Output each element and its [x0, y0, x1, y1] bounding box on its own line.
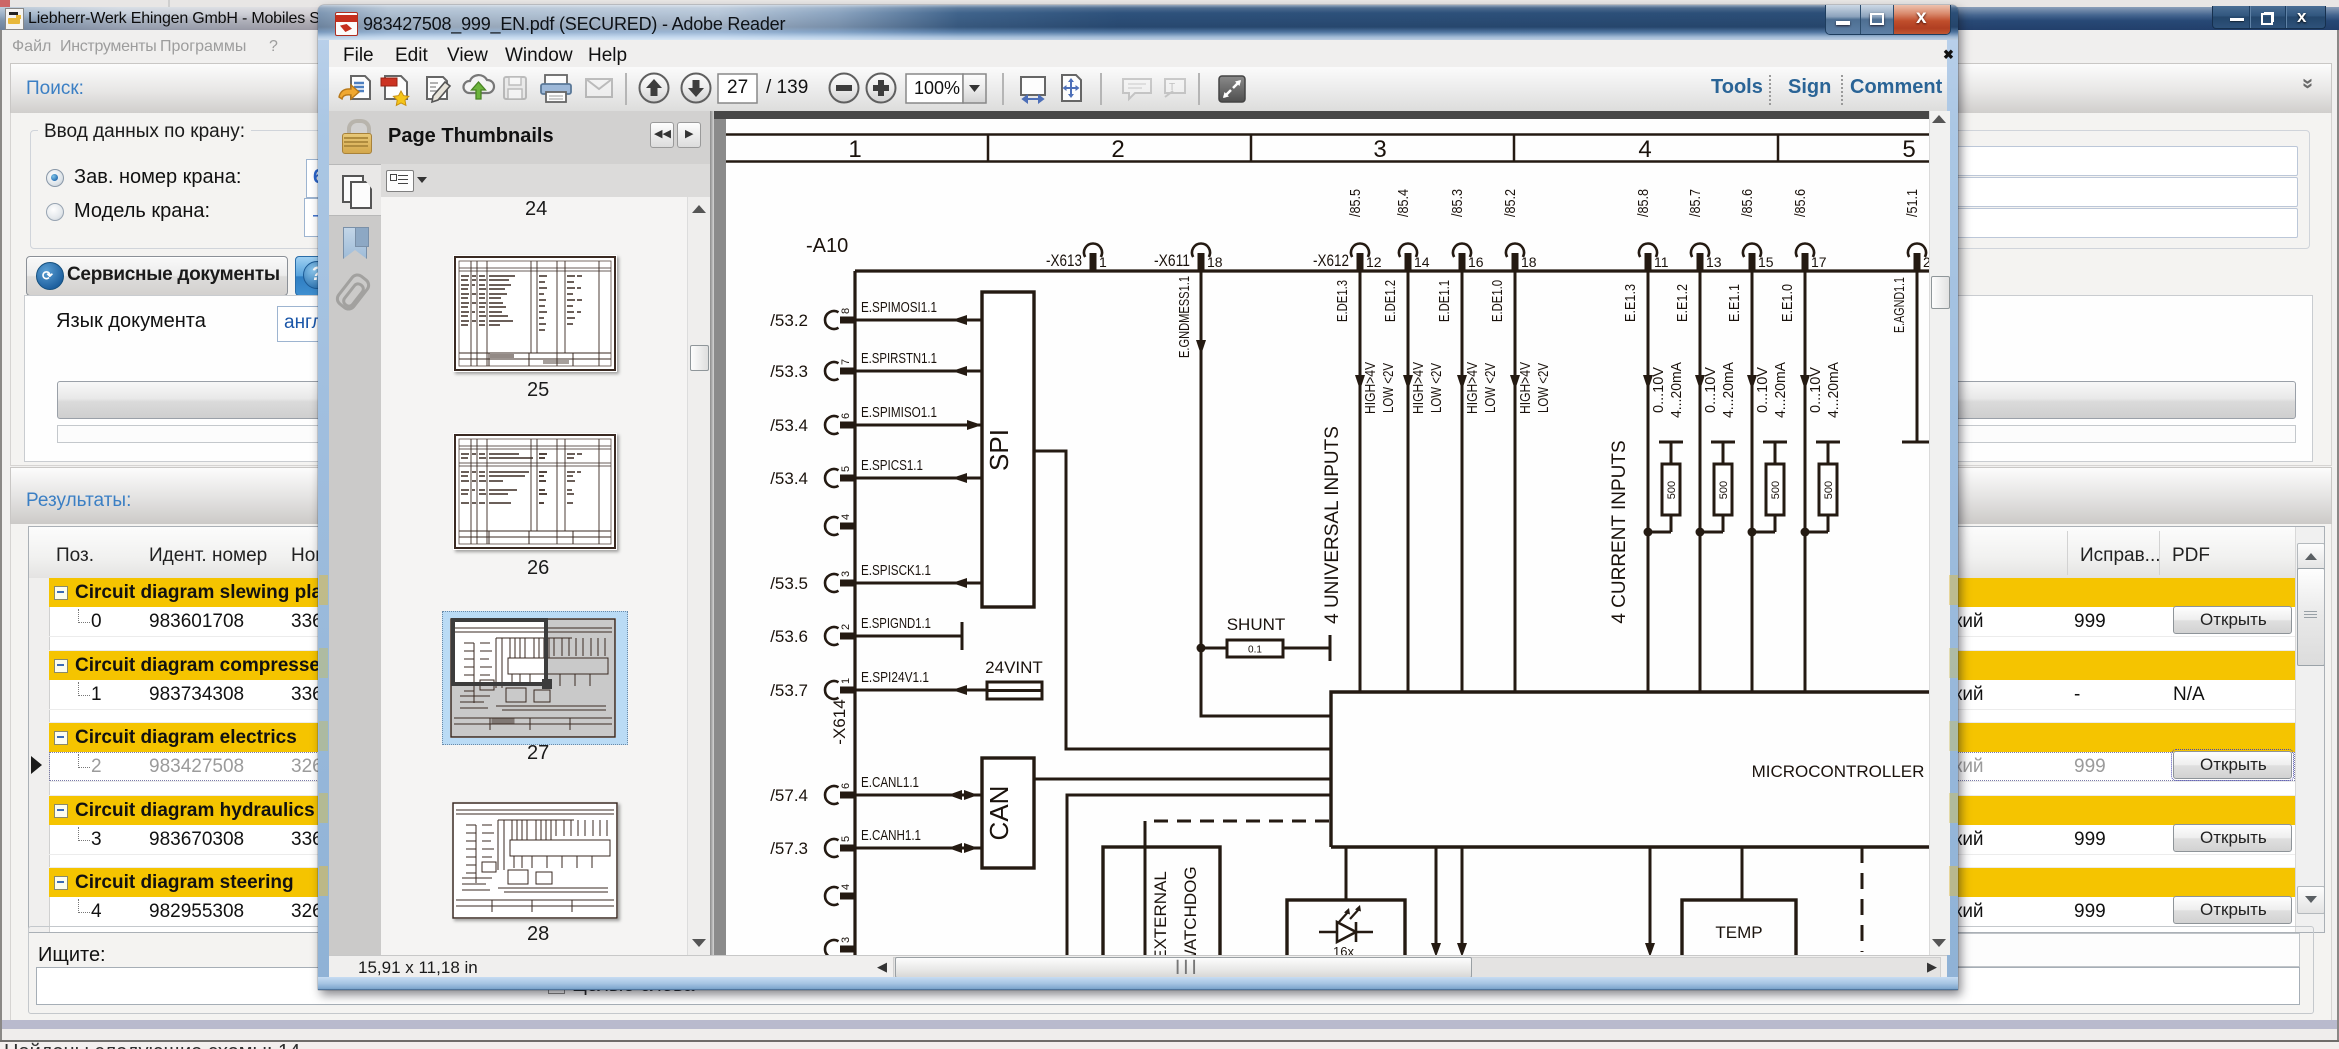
svg-text:TEMP: TEMP — [1715, 923, 1762, 942]
ruler column numbers — [848, 136, 1915, 163]
dashed wire micro aux — [1861, 847, 1864, 952]
wire micro to TEMP — [1741, 847, 1744, 900]
connector -X611 pin 18 — [1192, 244, 1210, 271]
svg-text:LOW <2V: LOW <2V — [1482, 363, 1499, 413]
dashed wire to watchdog — [1145, 820, 1329, 823]
svg-text:HIGH>4V: HIGH>4V — [1517, 362, 1534, 414]
svg-text:5: 5 — [840, 466, 852, 472]
svg-text:6: 6 — [840, 783, 852, 789]
svg-text:24VINT: 24VINT — [985, 658, 1043, 677]
thumb 27 selected — [442, 611, 628, 745]
svg-text:5: 5 — [1902, 136, 1915, 163]
left connector pin 2 /53.6 — [825, 627, 856, 645]
svg-text:/53.5: /53.5 — [770, 574, 808, 593]
groups container; table origin (28,526): yellow rows at local y 52,124.5,197,269.5,342 — [29, 526, 2324, 528]
svg-text:-X612: -X612 — [1313, 251, 1349, 270]
svg-text:17: 17 — [1811, 254, 1827, 270]
wire CAN low bus drop — [1067, 795, 1331, 958]
search body — [10, 113, 2332, 466]
window side borders — [0, 30, 2, 1042]
chevron — [2296, 78, 2319, 89]
left connector pin 8 /53.2 — [825, 311, 856, 329]
header row — [29, 527, 2324, 579]
bookmark tab icon — [343, 227, 367, 259]
svg-text:E.CANL1.1: E.CANL1.1 — [861, 774, 919, 791]
svg-text:18: 18 — [1521, 254, 1537, 270]
toolbar — [329, 67, 1947, 112]
svg-text:0.1: 0.1 — [1248, 645, 1262, 656]
connector -X612 pin 15 — [1743, 244, 1761, 271]
block EXTERNAL WATCHDOG — [1103, 847, 1220, 966]
page box — [718, 74, 757, 103]
left connector pin 7 /53.3 — [825, 362, 856, 380]
svg-text:/57.4: /57.4 — [770, 786, 808, 805]
active pages tab — [329, 164, 381, 216]
wire E.E1.0 — [1779, 271, 1810, 692]
svg-text:EXTERNAL: EXTERNAL — [1151, 871, 1170, 955]
svg-text:6: 6 — [840, 413, 852, 419]
save floppy (disabled) — [504, 77, 526, 99]
wire E.GNDMESS1.1 — [1176, 271, 1331, 716]
view box — [453, 620, 546, 684]
svg-text:11: 11 — [1654, 254, 1669, 270]
svg-text:1: 1 — [840, 678, 852, 684]
resistor 500 on E.E1.0 — [1805, 442, 1840, 532]
right window buttons of bg app — [2212, 6, 2326, 29]
svg-text:/85.6: /85.6 — [1792, 189, 1809, 217]
svg-text:0...10V: 0...10V — [1702, 367, 1719, 413]
wire E.CANL1.1 — [848, 774, 982, 800]
resistor 500 on E.E1.1 — [1752, 442, 1787, 532]
svg-text:4 UNIVERSAL INPUTS: 4 UNIVERSAL INPUTS — [1322, 426, 1343, 624]
connector -X612 pin 2 — [1908, 244, 1926, 271]
svg-text:7: 7 — [840, 359, 852, 365]
menu bar — [329, 40, 1947, 68]
wire E.CANH1.1 — [848, 827, 982, 853]
right-side tall inputs (mostly hidden behind acrobat) — [700, 146, 2298, 176]
svg-text:18: 18 — [1207, 254, 1223, 270]
svg-text:/53.2: /53.2 — [770, 311, 808, 330]
svg-text:/53.6: /53.6 — [770, 627, 808, 646]
sign icon — [427, 77, 450, 102]
long grey bar — [57, 381, 2296, 419]
liebherr icon — [5, 8, 24, 30]
svg-text:/85.8: /85.8 — [1635, 189, 1652, 217]
svg-text:5: 5 — [840, 836, 852, 842]
connector -X612 pin 12 — [1351, 244, 1369, 271]
connector -X612 pin 13 — [1691, 244, 1709, 271]
svg-text:2: 2 — [1111, 136, 1124, 163]
svg-text:/51.1: /51.1 — [1904, 189, 1921, 217]
connector -X612 pin 18 — [1506, 244, 1524, 271]
svg-text:LOW <2V: LOW <2V — [1535, 363, 1552, 413]
thumb 28 — [452, 802, 618, 919]
svg-text:E.SPISCK1.1: E.SPISCK1.1 — [861, 562, 931, 579]
service documents button — [26, 256, 288, 296]
wire E.SPIRSTN1.1 — [848, 350, 982, 376]
connector -X613 pin 1 — [1084, 244, 1102, 271]
svg-text:LOW <2V: LOW <2V — [1428, 363, 1445, 413]
create pdf icon — [381, 76, 409, 105]
group 5 — [49, 868, 2295, 897]
svg-text:/85.5: /85.5 — [1347, 189, 1364, 217]
splitter — [710, 111, 714, 955]
block MICROCONTROLLER — [1331, 692, 1929, 847]
left connector pin 4 spare — [825, 887, 856, 905]
svg-text:14: 14 — [1414, 254, 1430, 270]
svg-text:HIGH>4V: HIGH>4V — [1410, 362, 1427, 414]
svg-text:E.E1.3: E.E1.3 — [1622, 284, 1639, 322]
svg-text:/57.3: /57.3 — [770, 839, 808, 858]
wire E.DE1.2 — [1382, 271, 1413, 692]
svg-text:-X611: -X611 — [1154, 251, 1190, 270]
svg-text:E.SPIRSTN1.1: E.SPIRSTN1.1 — [861, 350, 937, 367]
radio 1 selected — [46, 169, 64, 187]
svg-text:4...20mA: 4...20mA — [1720, 362, 1737, 418]
radio 2 — [46, 203, 64, 221]
svg-text:E.SPIMOSI1.1: E.SPIMOSI1.1 — [861, 299, 937, 316]
svg-text:0...10V: 0...10V — [1754, 367, 1771, 413]
fit page icon — [1062, 75, 1081, 101]
svg-text:0...10V: 0...10V — [1650, 367, 1667, 413]
lock icon — [342, 117, 372, 153]
wire E.E1.2 — [1674, 271, 1705, 692]
separator — [625, 73, 627, 105]
v scrollbar — [1929, 111, 1950, 955]
wire micro to LED block — [1345, 847, 1348, 900]
left connector pin 4 spare — [825, 517, 856, 535]
title bar — [318, 5, 1958, 40]
svg-text:4 CURRENT INPUTS: 4 CURRENT INPUTS — [1609, 440, 1630, 623]
svg-text:/53.4: /53.4 — [770, 469, 808, 488]
group 1 — [49, 578, 2295, 607]
mail (disabled) — [586, 79, 612, 97]
wire E.SPI24V1.1 — [848, 669, 987, 695]
down circle — [682, 74, 711, 103]
svg-text:E.DE1.2: E.DE1.2 — [1382, 280, 1399, 322]
glass tint: yellow rows behind right border — [1949, 575, 1958, 605]
separator — [1100, 73, 1102, 105]
fuse 24VINT — [987, 682, 1042, 699]
svg-text:8: 8 — [840, 308, 852, 314]
wire SPI to microcontroller — [1034, 451, 1331, 749]
open icon — [339, 76, 370, 99]
wire E.AGND1.1 with termination bar — [1891, 271, 1932, 442]
svg-text:4: 4 — [1638, 136, 1651, 163]
separator — [1002, 73, 1004, 105]
left connector pin 6 /53.4 — [825, 416, 856, 434]
thumb 26 — [453, 433, 617, 550]
group 4 — [49, 796, 2295, 825]
cloud upload — [463, 75, 494, 99]
connector -X612 pin 14 — [1399, 244, 1417, 271]
thumb 25 — [453, 255, 617, 372]
svg-text:3: 3 — [840, 571, 852, 577]
viewport — [714, 111, 1949, 955]
svg-text:E.CANH1.1: E.CANH1.1 — [861, 827, 921, 844]
svg-text:E.DE1.0: E.DE1.0 — [1489, 280, 1506, 322]
shunt resistor 0.1 — [1201, 635, 1330, 661]
svg-text:0...10V: 0...10V — [1807, 367, 1824, 413]
callout (disabled) — [1165, 79, 1185, 97]
svg-text:500: 500 — [1718, 481, 1730, 499]
svg-text:-X614: -X614 — [830, 699, 849, 744]
vertical scrollbar — [2295, 527, 2324, 932]
svg-text:2: 2 — [840, 624, 852, 630]
title bar — [0, 7, 2339, 30]
wire E.SPISCK1.1 — [848, 562, 982, 588]
fieldset vvod dannyh — [30, 130, 2310, 249]
svg-text:4...20mA: 4...20mA — [1772, 362, 1789, 418]
resistor 500 on E.E1.2 — [1700, 442, 1735, 532]
svg-text:500: 500 — [1770, 481, 1782, 499]
svg-text:-A10: -A10 — [806, 235, 848, 257]
left connector pin 1 /53.7 — [825, 681, 856, 699]
plus circle — [867, 74, 896, 103]
block TEMP — [1682, 900, 1796, 958]
up circle — [640, 74, 669, 103]
svg-text:/53.4: /53.4 — [770, 416, 808, 435]
white strip — [57, 425, 2296, 443]
junction node shunt/gndmess — [1197, 644, 1206, 653]
connector -X612 pin 17 — [1796, 244, 1814, 271]
svg-text:E.E1.2: E.E1.2 — [1674, 284, 1691, 322]
left connector pin 5 /53.4 — [825, 469, 856, 487]
row header column — [29, 578, 50, 932]
svg-text:12: 12 — [1366, 254, 1382, 270]
svg-text:E.SPIGND1.1: E.SPIGND1.1 — [861, 615, 931, 632]
help button — [295, 256, 341, 296]
svg-text:/85.3: /85.3 — [1449, 189, 1466, 217]
bottom status strip — [329, 955, 1947, 978]
left connector pin 3 spare — [825, 940, 856, 958]
white box with language — [24, 295, 2313, 462]
svg-text:13: 13 — [1706, 254, 1722, 270]
svg-text:1: 1 — [848, 136, 861, 163]
svg-text:MICROCONTROLLER: MICROCONTROLLER — [1752, 762, 1925, 781]
paperclip tab icon — [333, 270, 374, 313]
menu bar — [0, 30, 2339, 60]
svg-text:15: 15 — [1758, 254, 1774, 270]
left connector pin 6 /57.4 — [825, 786, 856, 804]
svg-text:1: 1 — [1099, 254, 1107, 270]
group 2 — [49, 651, 2295, 680]
tab strip — [329, 164, 382, 955]
wire E.E1.3 — [1622, 271, 1653, 692]
svg-text:3: 3 — [840, 937, 852, 943]
svg-text:4: 4 — [840, 514, 852, 520]
wire E.DE1.3 — [1334, 271, 1365, 692]
svg-text:/85.6: /85.6 — [1739, 189, 1756, 217]
svg-text:HIGH>4V: HIGH>4V — [1362, 362, 1379, 414]
connector -X612 pin 16 — [1453, 244, 1471, 271]
zoom box — [906, 74, 963, 103]
minus circle — [830, 74, 859, 103]
svg-text:/53.7: /53.7 — [770, 681, 808, 700]
svg-text:/85.4: /85.4 — [1395, 189, 1412, 217]
left connector pin 3 /53.5 — [825, 574, 856, 592]
list scrollbar — [687, 197, 710, 955]
separator — [1198, 73, 1200, 105]
wire E.SPIMOSI1.1 — [848, 299, 982, 325]
svg-text:HIGH>4V: HIGH>4V — [1464, 362, 1481, 414]
svg-text:/53.3: /53.3 — [770, 362, 808, 381]
svg-text:SHUNT: SHUNT — [1227, 615, 1286, 634]
wire E.SPIGND1.1 with termination bar — [848, 615, 962, 650]
bottom border — [318, 977, 1958, 990]
thumbnail list — [381, 197, 711, 955]
svg-text:SPI: SPI — [984, 429, 1014, 471]
svg-text:E.E1.1: E.E1.1 — [1726, 284, 1743, 322]
svg-text:E.GNDMESS1.1: E.GNDMESS1.1 — [1176, 276, 1193, 358]
svg-text:500: 500 — [1666, 481, 1678, 499]
svg-text:/85.2: /85.2 — [1502, 189, 1519, 217]
wire micro out 3 — [1645, 847, 1655, 957]
block LED bank — [1287, 900, 1405, 958]
white page — [726, 119, 1929, 955]
svg-text:500: 500 — [1823, 481, 1835, 499]
LED 16x — [1319, 905, 1373, 942]
print icon — [541, 75, 571, 102]
comment bubble (disabled) — [1123, 79, 1151, 99]
svg-text:LOW <2V: LOW <2V — [1380, 363, 1397, 413]
wire CAN high to microcontroller — [1034, 778, 1331, 781]
svg-text:WATCHDOG: WATCHDOG — [1181, 866, 1200, 955]
svg-text:4...20mA: 4...20mA — [1668, 362, 1685, 418]
wire E.SPIMISO1.1 — [848, 404, 982, 430]
svg-text:E.SPICS1.1: E.SPICS1.1 — [861, 457, 923, 474]
fit width icon — [1021, 77, 1045, 102]
wire E.DE1.1 — [1436, 271, 1467, 692]
input threshold labels HIGH/LOW — [1362, 362, 1842, 418]
wire micro out 1 — [1431, 847, 1441, 957]
wire E.DE1.0 — [1489, 271, 1520, 692]
svg-text:CAN: CAN — [984, 786, 1014, 841]
group 3 (selected) — [49, 723, 2295, 752]
svg-text:16: 16 — [1468, 254, 1484, 270]
nav panel header — [329, 111, 711, 165]
svg-text:4: 4 — [840, 884, 852, 890]
window buttons — [1825, 5, 1951, 35]
svg-text:E.E1.0: E.E1.0 — [1779, 284, 1796, 322]
desktop sliver on top — [0, 0, 2339, 8]
block CAN — [982, 758, 1034, 868]
glass tint: yellow rows behind left border — [319, 575, 328, 605]
svg-text:E.DE1.1: E.DE1.1 — [1436, 280, 1453, 322]
svg-text:E.AGND1.1: E.AGND1.1 — [1891, 277, 1908, 333]
drawing frame column ruler — [726, 134, 1929, 162]
svg-text:E.SPIMISO1.1: E.SPIMISO1.1 — [861, 404, 937, 421]
svg-text:16x: 16x — [1333, 944, 1354, 955]
svg-text:T: T — [1169, 82, 1175, 93]
svg-text:E.SPI24V1.1: E.SPI24V1.1 — [861, 669, 929, 686]
wire E.SPICS1.1 — [848, 457, 982, 483]
connector -X612 pin 11 — [1639, 244, 1657, 271]
pdf icon — [335, 12, 358, 36]
svg-text:-X613: -X613 — [1046, 251, 1082, 270]
svg-text:E.DE1.3: E.DE1.3 — [1334, 280, 1351, 322]
svg-text:3: 3 — [1373, 136, 1386, 163]
wire watchdog drop — [1144, 821, 1147, 958]
resistor 500 on E.E1.3 — [1648, 442, 1683, 532]
left connector pin 5 /57.3 — [825, 839, 856, 857]
wire micro out 2 — [1457, 847, 1467, 957]
options row — [381, 164, 711, 197]
svg-text:/85.7: /85.7 — [1687, 189, 1704, 217]
sheet cross references (top) — [1347, 189, 1921, 217]
bottom window chrome — [2, 1020, 2337, 1029]
wire E.E1.1 — [1726, 271, 1757, 692]
fullscreen icon — [1219, 76, 1245, 102]
serial input sliver — [306, 159, 662, 198]
checkbox celye slova (peeks below acrobat) — [548, 977, 565, 994]
module -A10 boundary — [855, 271, 1929, 955]
svg-text:4...20mA: 4...20mA — [1825, 362, 1842, 418]
block SPI — [982, 292, 1034, 607]
